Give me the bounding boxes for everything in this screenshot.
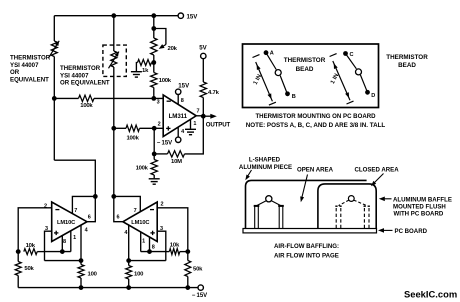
svg-text:THERMISTOR: THERMISTOR xyxy=(386,54,428,61)
wire 1k to ground xyxy=(136,63,137,72)
wire 10M to output node xyxy=(185,116,204,154)
thermistor RT2 arrow xyxy=(109,52,119,69)
wire 100k to pin3 node xyxy=(153,88,155,99)
U3 minus sign xyxy=(150,209,154,211)
ground at 1k xyxy=(131,72,142,77)
svg-text:LM311: LM311 xyxy=(169,113,188,120)
wire 10k to right bias node xyxy=(180,251,188,253)
lead bead to post B xyxy=(280,76,287,93)
resistor 100k (to ground) zigzag xyxy=(151,160,157,176)
svg-text:L-SHAPED: L-SHAPED xyxy=(249,157,281,164)
svg-text:EQUIVALENT: EQUIVALENT xyxy=(10,77,49,84)
svg-text:THERMISTOR: THERMISTOR xyxy=(284,57,326,64)
junction left bias node xyxy=(16,249,21,254)
svg-text:YSI 44007: YSI 44007 xyxy=(60,72,89,79)
thermistor RT1 zigzag xyxy=(51,41,57,57)
open post left xyxy=(254,206,260,229)
wire 4.7k to output node xyxy=(202,98,204,117)
resistor 10k right zigzag xyxy=(169,249,180,255)
wire pin2 node down xyxy=(153,128,155,154)
svg-text:4.7k: 4.7k xyxy=(208,90,220,96)
lead bead to post D xyxy=(360,75,367,91)
dashed enclosure xyxy=(103,45,126,76)
U2 minus sign xyxy=(55,209,59,211)
wire 100 to rail xyxy=(80,278,82,288)
svg-text:8: 8 xyxy=(152,245,155,251)
svg-text:2: 2 xyxy=(161,202,164,208)
svg-text:D: D xyxy=(371,93,375,99)
ground below hysteresis 100k xyxy=(149,179,160,184)
svg-text:100: 100 xyxy=(134,271,144,277)
L-shaped aluminum piece outline xyxy=(246,180,367,228)
wire 5V to 4.7k xyxy=(202,59,204,82)
resistor 100 right zigzag xyxy=(126,266,132,280)
wire 50k right to rail xyxy=(187,277,189,288)
svg-text:2: 2 xyxy=(158,122,161,128)
U1 output wire xyxy=(196,115,203,117)
thermistor RT1 arrow xyxy=(49,41,59,58)
wire 100k to LM311 pin3 xyxy=(94,97,163,99)
closed-area bead xyxy=(348,196,354,202)
closed post right xyxy=(364,206,370,228)
svg-text:OR EQUIVALENT: OR EQUIVALENT xyxy=(60,80,110,87)
resistor 50k left zigzag xyxy=(15,262,21,276)
svg-text:1: 1 xyxy=(142,239,145,245)
svg-text:WITH PC BOARD: WITH PC BOARD xyxy=(394,211,444,218)
wire node to 10M xyxy=(154,153,167,155)
open-area bead xyxy=(266,196,272,202)
arrow to closed area xyxy=(371,174,384,187)
svg-text:LM10C: LM10C xyxy=(57,220,75,226)
terminal 15V at U1 pin8 xyxy=(176,89,181,94)
junction U3 pin8 xyxy=(147,249,152,254)
svg-text:6: 6 xyxy=(117,215,120,221)
U2 pin2 input wire xyxy=(18,208,52,252)
svg-text:C: C xyxy=(350,52,354,58)
svg-text:THERMISTOR MOUNTING ON PC BOAR: THERMISTOR MOUNTING ON PC BOARD xyxy=(255,113,376,120)
U2 output wire to feedback node xyxy=(87,196,95,221)
resistor 10k left zigzag xyxy=(24,249,37,255)
thermistor RT2 zigzag xyxy=(111,51,117,67)
wire 15V rail to 20k xyxy=(153,16,155,38)
op-amp U2 LM10C triangle xyxy=(52,202,87,242)
svg-text:PC BOARD: PC BOARD xyxy=(395,228,428,235)
svg-text:MOUNTED FLUSH: MOUNTED FLUSH xyxy=(393,204,446,211)
svg-text:− 15V: − 15V xyxy=(157,140,172,146)
aluminum baffle (closed area) outline xyxy=(318,184,376,229)
U3 output wire to feedback node xyxy=(114,196,123,221)
op-amp U1 LM311 triangle xyxy=(163,95,196,137)
U3 pin7 feedback wire xyxy=(114,196,141,211)
resistor 50k right zigzag xyxy=(185,261,191,277)
svg-text:− 15V: − 15V xyxy=(192,293,207,299)
dimension line CD 1 IN. xyxy=(330,54,354,104)
arrow to open area xyxy=(300,175,307,203)
potentiometer 20k zigzag xyxy=(151,38,157,55)
U3 pin3 wire xyxy=(157,231,166,260)
U2 pin8 wire xyxy=(61,236,63,252)
U3 lower tie wire xyxy=(129,260,166,262)
svg-text:6: 6 xyxy=(88,215,91,221)
svg-text:100k: 100k xyxy=(136,166,149,172)
op-amp U3 LM10C triangle xyxy=(123,202,157,242)
post A xyxy=(264,50,269,55)
open-area bead leads xyxy=(257,201,282,206)
svg-text:100k: 100k xyxy=(127,135,140,141)
junction output node xyxy=(201,114,206,119)
U2 pin1 wire xyxy=(70,231,72,252)
PC board outline (mounting diagram) xyxy=(243,44,379,108)
U2 pin3 wire xyxy=(45,231,52,260)
U2 pin7 feedback wire xyxy=(72,196,95,213)
terminal -15V bottom xyxy=(198,285,203,290)
wire thermistor node to 100k xyxy=(54,97,78,99)
lead post C to bead xyxy=(346,54,357,69)
U2 pin4 wire xyxy=(80,225,82,261)
open post right xyxy=(278,206,284,229)
svg-text:ALUMINUM PIECE: ALUMINUM PIECE xyxy=(239,164,292,171)
resistor 100k (pin3 input) zigzag xyxy=(79,95,95,101)
resistor 4.7k zigzag xyxy=(200,82,206,98)
wire 10k to pin3 tie xyxy=(37,251,44,253)
U1 non-inverting plus sign xyxy=(166,126,170,130)
svg-text:1: 1 xyxy=(73,235,76,241)
svg-text:20k: 20k xyxy=(168,46,178,52)
post B xyxy=(285,91,290,96)
U2 plus sign xyxy=(54,231,58,235)
svg-text:10k: 10k xyxy=(170,243,180,249)
U3 pin2 input wire xyxy=(157,208,188,252)
caption AIR-FLOW BAFFLING / AIR FLOW INTO PAGE xyxy=(274,243,339,260)
junction top rail / thermistor2 branch xyxy=(111,13,116,18)
wire node to 100k gnd xyxy=(153,154,155,160)
svg-text:100k: 100k xyxy=(80,103,93,109)
arrow to PC board xyxy=(378,228,393,233)
svg-text:15V: 15V xyxy=(187,13,199,20)
dimension line AB 1 IN. xyxy=(253,55,276,106)
svg-text:1k: 1k xyxy=(142,68,149,74)
wire left rail lower xyxy=(53,57,55,161)
wire left rail to U2 feedback node xyxy=(54,160,95,185)
wire left rail upper xyxy=(53,16,55,41)
ground at U1 pin1 xyxy=(185,129,196,134)
svg-text:OR: OR xyxy=(10,69,20,76)
wire top supply rail xyxy=(54,15,178,17)
wire pin4 node to 100 right xyxy=(128,261,130,266)
junction U2 pin8 xyxy=(60,249,65,254)
resistor 100k (divider) zigzag xyxy=(151,73,157,88)
svg-text:3: 3 xyxy=(157,100,160,106)
label L-SHAPED ALUMINUM PIECE xyxy=(239,157,292,171)
label THERMISTOR BEAD inner xyxy=(284,57,326,73)
label THERMISTOR YSI 44007 OR EQUIVALENT (center) xyxy=(60,65,110,87)
junction 100 left at rail xyxy=(79,285,84,290)
U1 pin 1 wire xyxy=(190,119,192,128)
junction 20k / 1k xyxy=(151,60,156,65)
junction U3 pin4 node xyxy=(126,258,131,263)
svg-text:50k: 50k xyxy=(24,266,34,272)
wire thermistor2 rail upper xyxy=(113,16,115,51)
post D xyxy=(365,90,370,95)
terminal 5V xyxy=(201,53,206,58)
svg-text:SeekIC.com: SeekIC.com xyxy=(404,289,457,300)
svg-text:THERMISTOR: THERMISTOR xyxy=(10,54,51,61)
thermistor bead left xyxy=(275,70,281,76)
U2 pins1-8-3 tie wire xyxy=(45,251,71,253)
svg-text:100: 100 xyxy=(88,271,98,277)
junction U2 feedback node xyxy=(93,194,98,199)
svg-text:8: 8 xyxy=(181,98,184,104)
U2 lower tie wire xyxy=(45,260,82,262)
pot wiper arrow xyxy=(159,44,166,49)
junction right bias node xyxy=(185,249,190,254)
wire bias node to 50k right xyxy=(187,252,189,261)
junction pin2 node xyxy=(152,126,157,131)
junction pot wiper loop xyxy=(151,26,156,31)
wire 100 right to rail xyxy=(128,279,130,288)
resistor 10M zigzag xyxy=(168,151,185,157)
arrow to aluminum baffle xyxy=(379,197,392,202)
svg-text:50k: 50k xyxy=(193,266,203,272)
svg-text:THERMISTOR: THERMISTOR xyxy=(60,65,101,72)
U3 pin4 wire xyxy=(128,225,130,261)
svg-text:CLOSED AREA: CLOSED AREA xyxy=(355,166,400,173)
closed-area bead leads xyxy=(339,200,367,206)
U3 pin8 wire xyxy=(149,237,151,252)
svg-text:5V: 5V xyxy=(199,45,207,52)
wire 100k to ground sym xyxy=(153,175,155,178)
wire bottom negative rail xyxy=(18,287,198,289)
wire 50k to rail xyxy=(17,276,19,288)
svg-text:OPEN AREA: OPEN AREA xyxy=(297,166,334,173)
svg-text:NOTE: POSTS A, B, C, AND D ARE: NOTE: POSTS A, B, C, AND D ARE 3/8 IN. T… xyxy=(246,122,386,129)
label THERMISTOR YSI 44007 OR EQUIVALENT (left) xyxy=(10,54,51,83)
svg-text:B: B xyxy=(292,94,296,100)
svg-text:10M: 10M xyxy=(171,159,182,165)
label ALUMINUM BAFFLE MOUNTED FLUSH WITH PC BOARD xyxy=(393,196,452,217)
arrow to L-shaped piece xyxy=(245,170,251,180)
junction top rail / 20k branch xyxy=(151,13,156,18)
terminal -15V at U1 pin4 xyxy=(176,137,181,142)
svg-text:7: 7 xyxy=(197,108,200,114)
svg-text:8: 8 xyxy=(63,239,66,245)
junction hysteresis node xyxy=(152,152,157,157)
lead post A to bead xyxy=(266,53,276,70)
junction thermistor2 rail / 100k to pin2 xyxy=(111,126,116,131)
wire bias node to 50k xyxy=(17,252,19,262)
wire pin4 node to 100 xyxy=(80,261,82,265)
svg-text:AIR FLOW INTO PAGE: AIR FLOW INTO PAGE xyxy=(274,253,339,260)
junction U2 pin4 node xyxy=(79,258,84,263)
svg-text:1: 1 xyxy=(193,121,196,127)
wire rail into U2 feedback node xyxy=(94,185,96,196)
closed post left xyxy=(335,206,341,228)
resistor 100 left zigzag xyxy=(78,265,84,279)
junction left rail / 100k input wire xyxy=(52,96,57,101)
output arrow xyxy=(203,114,217,119)
wire 100k to U1 pin2 xyxy=(140,127,164,129)
junction 100 right at rail xyxy=(126,285,131,290)
svg-text:10k: 10k xyxy=(26,243,36,249)
junction U3 feedback node xyxy=(111,194,116,199)
pot wiper loop wire xyxy=(154,29,166,45)
thermistor bead right xyxy=(356,69,362,75)
svg-text:YSI 44007: YSI 44007 xyxy=(10,62,39,69)
U1 pin 8 wire xyxy=(177,95,179,105)
svg-text:BEAD: BEAD xyxy=(398,62,416,69)
svg-text:AIR-FLOW BAFFLING:: AIR-FLOW BAFFLING: xyxy=(274,243,339,250)
wire thermistor2 node to 100k pin2 xyxy=(114,127,126,129)
junction 50k right at rail xyxy=(185,285,190,290)
svg-text:7: 7 xyxy=(74,208,77,214)
junction pin3 node xyxy=(151,96,156,101)
post C xyxy=(343,51,348,56)
svg-text:OUTPUT: OUTPUT xyxy=(206,121,231,128)
svg-text:A: A xyxy=(270,51,274,57)
svg-text:100k: 100k xyxy=(159,78,172,84)
wire pin tie to 10k xyxy=(166,251,170,253)
svg-text:LM10C: LM10C xyxy=(131,220,149,226)
wire thermistor2 rail lower xyxy=(113,67,115,196)
resistor 1k zigzag xyxy=(138,60,152,66)
PC board bar xyxy=(243,229,377,233)
U1 pin 4 wire xyxy=(177,127,179,137)
wire 20k to 1k junction xyxy=(153,55,155,73)
terminal 15V xyxy=(178,13,183,18)
label THERMISTOR BEAD outer xyxy=(386,54,428,69)
svg-text:BEAD: BEAD xyxy=(296,66,314,73)
U3 plus sign xyxy=(150,231,154,235)
svg-text:15V: 15V xyxy=(178,82,190,89)
svg-text:7: 7 xyxy=(134,208,137,214)
U3 pins1-8-3 tie wire xyxy=(141,251,166,253)
svg-text:ALUMINUM BAFFLE: ALUMINUM BAFFLE xyxy=(393,196,452,203)
U1 inverting minus sign xyxy=(167,100,171,102)
U3 pin1 wire xyxy=(140,232,142,252)
resistor 100k (pin2 input) zigzag xyxy=(126,125,140,131)
